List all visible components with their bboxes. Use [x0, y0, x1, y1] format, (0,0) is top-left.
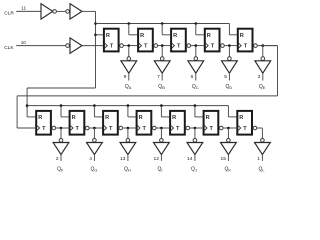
- pin 13: [120, 156, 126, 162]
- node QD junction: [228, 44, 231, 47]
- label QA: [125, 84, 132, 90]
- wire bottom reset bus: [27, 105, 228, 107]
- pin 14: [187, 156, 193, 162]
- pin 4: [89, 156, 92, 162]
- inverter output driver QD: [222, 46, 238, 81]
- inverter output driver QE: [255, 46, 271, 81]
- svg-text:K: K: [228, 168, 231, 173]
- wire reset vertical trunk: [95, 11, 97, 88]
- wire U2 output to reset node: [82, 10, 96, 12]
- wire CLR input: [16, 10, 41, 12]
- flip-flop FF5 (E): [238, 29, 257, 52]
- inverter output driver QF: [53, 128, 69, 161]
- inverter output driver QK: [221, 128, 237, 161]
- node reset tap H: [93, 104, 96, 107]
- node QG junction: [93, 127, 96, 130]
- wire QH to FF-I: [123, 127, 136, 129]
- svg-text:5: 5: [224, 74, 227, 80]
- svg-text:L: L: [262, 168, 265, 173]
- node reset tap K: [194, 104, 197, 107]
- wire reset drop to FF-G: [61, 106, 69, 117]
- svg-text:B: B: [162, 85, 165, 90]
- flip-flop FF4 (D): [205, 29, 224, 52]
- node reset tap C: [161, 22, 164, 25]
- svg-text:4: 4: [89, 156, 92, 162]
- node QJ junction: [194, 127, 197, 130]
- input CLK label: [4, 45, 14, 51]
- node QB junction: [161, 44, 164, 47]
- wire reset drop to FF-D: [196, 24, 204, 35]
- svg-text:G: G: [94, 168, 97, 173]
- node reset tap B: [128, 22, 131, 25]
- wire reset drop to FF-C: [162, 24, 170, 35]
- svg-text:11: 11: [21, 6, 26, 11]
- node reset tap D: [195, 22, 198, 25]
- svg-text:2: 2: [56, 156, 59, 162]
- wire QD to FF-E: [224, 45, 237, 47]
- svg-text:1: 1: [257, 156, 260, 162]
- svg-text:3: 3: [258, 74, 261, 80]
- pin 11: [21, 6, 26, 11]
- svg-text:R: R: [240, 33, 244, 39]
- pin 6: [191, 74, 194, 80]
- node QF junction: [60, 127, 63, 130]
- wire reset drop to FF-E: [229, 24, 236, 35]
- flip-flop FF8 (H): [103, 111, 122, 135]
- svg-text:10: 10: [21, 40, 27, 45]
- svg-text:9: 9: [124, 74, 127, 80]
- label QH: [124, 166, 131, 172]
- svg-text:J: J: [195, 168, 197, 173]
- wire QA to FF-B: [123, 45, 137, 47]
- pin 7: [157, 74, 160, 80]
- wire QL to driver elbow: [257, 127, 263, 129]
- node QK junction: [227, 127, 230, 130]
- inverter output driver QC: [188, 46, 204, 81]
- node FF-A reset tap: [94, 34, 97, 37]
- wire QE wrap to FF-F: [17, 46, 277, 128]
- node bottom reset bus corner: [26, 104, 29, 107]
- flip-flop FF12 (L): [237, 111, 256, 135]
- svg-text:H: H: [128, 168, 131, 173]
- node QE junction: [262, 44, 265, 47]
- svg-text:R: R: [206, 115, 210, 121]
- label QK: [225, 166, 232, 172]
- inverter output driver QJ: [187, 128, 203, 161]
- wire reset drop to FF-K: [195, 106, 203, 117]
- pin 1: [257, 156, 260, 162]
- svg-text:R: R: [173, 33, 177, 39]
- label QI: [158, 166, 163, 172]
- svg-text:12: 12: [154, 156, 160, 162]
- svg-text:T: T: [176, 126, 180, 132]
- svg-text:R: R: [172, 115, 176, 121]
- pin 3: [258, 74, 261, 80]
- node reset tap G: [60, 104, 63, 107]
- wire U3 output to FF-A T input: [82, 45, 103, 47]
- node QC junction: [195, 44, 198, 47]
- wire QB to FF-C: [158, 45, 171, 47]
- label QG: [91, 166, 98, 172]
- svg-text:R: R: [239, 115, 243, 121]
- wire top reset bus: [96, 23, 230, 25]
- pin 12: [154, 156, 160, 162]
- wire QG to FF-H: [89, 127, 102, 129]
- svg-text:T: T: [143, 126, 147, 132]
- svg-text:T: T: [76, 126, 80, 132]
- node reset tap J: [160, 104, 163, 107]
- label QE: [259, 84, 266, 90]
- flip-flop FF9 (I): [137, 111, 156, 135]
- node QA junction: [128, 44, 131, 47]
- svg-text:I: I: [161, 168, 162, 173]
- svg-text:C: C: [196, 85, 199, 90]
- wire reset drop to FF-J: [161, 106, 169, 117]
- svg-text:T: T: [244, 44, 248, 50]
- pin 5: [224, 74, 227, 80]
- svg-text:R: R: [72, 115, 76, 121]
- svg-text:A: A: [129, 85, 132, 90]
- svg-text:R: R: [207, 33, 211, 39]
- flip-flop FF1 (A): [104, 29, 123, 52]
- wire CLK input: [16, 45, 66, 47]
- inverter output driver QB: [154, 46, 170, 81]
- label QF: [57, 166, 64, 172]
- svg-text:D: D: [229, 85, 232, 90]
- node reset tap I: [127, 104, 130, 107]
- label QL: [259, 166, 266, 172]
- node QH junction: [127, 127, 130, 130]
- svg-text:CLK: CLK: [4, 45, 14, 51]
- svg-text:R: R: [38, 115, 42, 121]
- node reset bus corner: [94, 22, 97, 25]
- svg-text:15: 15: [221, 156, 227, 162]
- inverter output driver QH: [120, 128, 136, 161]
- node QI junction: [160, 127, 163, 130]
- wire FF-A reset stub: [96, 34, 103, 36]
- wire QK to FF-L: [223, 127, 236, 129]
- svg-text:T: T: [109, 126, 113, 132]
- flip-flop FF2 (B): [138, 29, 157, 52]
- svg-text:T: T: [243, 126, 247, 132]
- svg-text:6: 6: [191, 74, 194, 80]
- flip-flop FF7 (G): [70, 111, 89, 135]
- svg-text:T: T: [42, 126, 46, 132]
- svg-text:R: R: [105, 115, 109, 121]
- svg-text:E: E: [263, 85, 266, 90]
- pin 9: [124, 74, 127, 80]
- wire reset drop to FF-B: [129, 24, 137, 35]
- input CLR label: [4, 10, 14, 16]
- wire reset drop to FF-H: [94, 106, 102, 117]
- svg-text:CLR: CLR: [4, 10, 14, 16]
- label QB: [158, 84, 165, 90]
- svg-text:R: R: [140, 33, 144, 39]
- inverter output driver QG: [87, 128, 103, 161]
- wire QJ to FF-K: [190, 127, 203, 129]
- pin 10: [21, 40, 27, 45]
- svg-text:R: R: [106, 33, 110, 39]
- svg-text:T: T: [177, 44, 181, 50]
- flip-flop FF11 (K): [204, 111, 223, 135]
- flip-flop FF3 (C): [171, 29, 190, 52]
- svg-text:T: T: [211, 44, 215, 50]
- inverter output driver QI: [154, 128, 170, 161]
- label QC: [192, 84, 199, 90]
- svg-text:14: 14: [187, 156, 193, 162]
- svg-text:F: F: [61, 168, 64, 173]
- pin 2: [56, 156, 59, 162]
- svg-text:13: 13: [120, 156, 126, 162]
- wire QC to FF-D: [191, 45, 204, 47]
- svg-text:T: T: [144, 44, 148, 50]
- buffer U2 (CLR, inverting input): [66, 4, 82, 19]
- pin 15: [221, 156, 227, 162]
- wire reset drop to FF-I: [128, 106, 136, 117]
- label QJ: [191, 166, 197, 172]
- svg-text:T: T: [110, 44, 114, 50]
- inverter output driver QL: [255, 128, 271, 161]
- inverter U1 (CLR): [41, 4, 56, 19]
- flip-flop FF6 (F): [36, 111, 55, 135]
- svg-text:7: 7: [157, 74, 160, 80]
- wire reset drop to FF-L: [228, 106, 236, 117]
- wire QF to FF-G: [56, 127, 69, 129]
- buffer U3 (CLK, inverting input): [66, 38, 82, 53]
- wire QE to wrap corner: [257, 45, 277, 47]
- inverter output driver QA: [121, 46, 137, 81]
- wire reset wrap to bottom row: [27, 88, 95, 117]
- wire QI to FF-J: [156, 127, 169, 129]
- wire U1 to U2: [56, 10, 65, 12]
- label QD: [226, 84, 233, 90]
- svg-text:R: R: [139, 115, 143, 121]
- flip-flop FF10 (J): [170, 111, 189, 135]
- svg-text:T: T: [210, 126, 214, 132]
